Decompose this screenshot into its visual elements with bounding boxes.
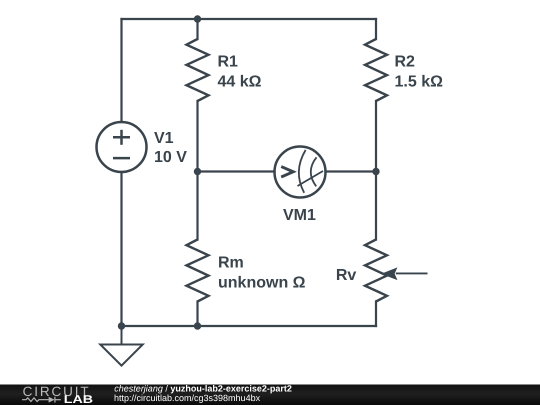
- svg-text:Rv: Rv: [336, 267, 357, 284]
- voltage source V1: [97, 122, 147, 172]
- wire R2 bottom to Rv top: [375, 101, 377, 240]
- wire left top (V1 to top rail): [120, 19, 122, 122]
- resistor R1: [187, 39, 209, 101]
- wire bottom rail: [122, 325, 377, 327]
- svg-text:R1: R1: [218, 54, 239, 71]
- svg-text:V1: V1: [154, 130, 174, 147]
- wire VM1 right: [326, 170, 377, 172]
- svg-text:R2: R2: [395, 54, 416, 71]
- node junction bottom (Rm): [194, 322, 201, 329]
- ground: [100, 326, 142, 366]
- wire Rm bottom stub: [196, 302, 198, 327]
- wire R1 bottom to Rm top: [196, 101, 198, 240]
- potentiometer Rv: [365, 240, 387, 302]
- svg-text:LAB: LAB: [64, 394, 93, 405]
- svg-text:10 V: 10 V: [154, 149, 187, 166]
- node junction bottom-left (ground): [118, 322, 125, 329]
- svg-text:unknown Ω: unknown Ω: [218, 275, 306, 292]
- node junction mid-right: [372, 168, 379, 175]
- wire top: [122, 18, 377, 20]
- wire left bottom (V1 to bottom rail): [120, 172, 122, 326]
- footer credit text: [114, 383, 292, 403]
- node junction mid-left: [194, 168, 201, 175]
- potentiometer Rv wiper arrow: [381, 267, 428, 280]
- voltmeter VM1: [275, 147, 326, 198]
- wire Rv bottom stub: [375, 302, 377, 327]
- svg-text:1.5 kΩ: 1.5 kΩ: [395, 73, 444, 90]
- wire VM1 left: [198, 170, 275, 172]
- svg-text:VM1: VM1: [283, 207, 316, 224]
- node junction top (R1/top rail): [194, 15, 201, 22]
- wire R2 top stub: [375, 19, 377, 39]
- svg-text:44 kΩ: 44 kΩ: [218, 73, 262, 90]
- svg-text:http://circuitlab.com/cg3s398m: http://circuitlab.com/cg3s398mhu4bx: [114, 393, 261, 403]
- resistor R2: [365, 39, 387, 101]
- resistor Rm: [187, 240, 209, 302]
- svg-text:Rm: Rm: [218, 255, 244, 272]
- wire R1 top stub: [196, 19, 198, 39]
- svg-text:chesterjiang / yuzhou-lab2-exe: chesterjiang / yuzhou-lab2-exercise2-par…: [114, 383, 292, 393]
- CircuitLab logo: [22, 384, 93, 405]
